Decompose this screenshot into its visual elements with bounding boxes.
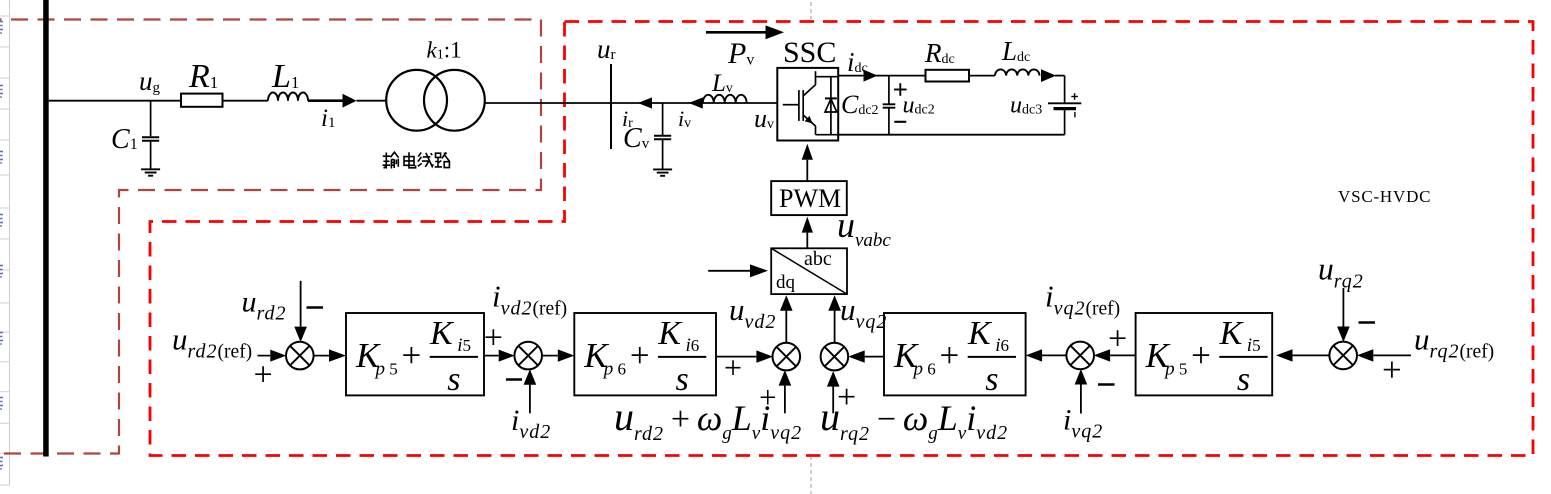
resistor R1 — [181, 94, 223, 107]
svg-text:K: K — [429, 315, 455, 352]
svg-text:i6: i6 — [995, 335, 1009, 356]
polarity - (udc3) — [1074, 112, 1076, 117]
svg-text:SSC: SSC — [783, 36, 836, 69]
node ug — [150, 101, 152, 137]
dashed boundary: VSC-HVDC region — [150, 22, 1533, 456]
dashed boundary: AC grid / transmission region — [0, 20, 541, 454]
arrow PWM to SSC — [806, 160, 808, 181]
inductor Ldc — [995, 69, 1040, 75]
arrow S4 up to dq/abc — [834, 311, 836, 344]
capacitor Cdc2 — [888, 76, 890, 105]
polarity - (udc2) — [894, 121, 906, 123]
svg-text:abc: abc — [804, 248, 832, 270]
inductor Lv — [703, 95, 747, 103]
sign - at S6 — [1359, 321, 1376, 324]
svg-text:k1:1: k1:1 — [427, 38, 462, 63]
sign - at S2 — [506, 378, 522, 381]
arrow urq2ref to S6 — [1373, 354, 1411, 356]
svg-text:+: + — [254, 357, 273, 394]
svg-text:dq: dq — [776, 272, 796, 293]
svg-text:+: + — [940, 336, 960, 375]
label: transmission line (Chinese 输电线路) — [383, 152, 450, 168]
arrow dq/abc to PWM — [806, 233, 808, 249]
arrow ivq2 into S5 — [1080, 385, 1082, 414]
blue text fragments in margin — [0, 22, 3, 34]
diode D1 inside SSC — [816, 77, 839, 135]
power flow arrow Pv — [706, 31, 769, 34]
summing junction S1 — [286, 342, 314, 370]
ground (C1) — [141, 168, 160, 170]
transform block dq/abc — [771, 248, 847, 294]
arrow S1 to block1 — [313, 355, 329, 357]
node bus ur (tick) — [610, 64, 612, 149]
current arrow iv — [689, 97, 703, 108]
wire: SSC dc+ rail — [838, 75, 925, 77]
sign - at S1 — [307, 306, 324, 309]
arrow block2 to S3 — [716, 356, 756, 358]
svg-text:p 6: p 6 — [912, 359, 936, 380]
inductor L1 — [268, 93, 308, 101]
svg-text:s: s — [985, 361, 998, 398]
sign - at S5 — [1098, 383, 1115, 386]
svg-text:+: + — [1382, 351, 1402, 390]
svg-text:VSC-HVDC: VSC-HVDC — [1338, 187, 1431, 206]
spreadsheet column border — [9, 0, 11, 485]
dc source udc3 — [1064, 76, 1066, 104]
svg-text:s: s — [1237, 361, 1250, 398]
spreadsheet row borders — [0, 15, 10, 17]
PI block Kp6+Ki6/s (d-axis inner) — [574, 313, 716, 395]
PI block Kp5+Ki5/s (d-axis outer) — [346, 313, 484, 395]
svg-text:p 5: p 5 — [1163, 359, 1187, 380]
svg-text:i6: i6 — [686, 335, 700, 356]
svg-text:+: + — [484, 320, 503, 357]
arrow S2 to block2 — [543, 355, 558, 357]
arrow into udc3 — [1041, 69, 1056, 82]
summing junction S4 — [821, 343, 849, 371]
arrow block4 to S5 — [1110, 354, 1136, 356]
wire: dc- rail — [838, 134, 1064, 136]
wire: R1 to L1 — [223, 100, 269, 102]
IGBT Q1 inside SSC — [783, 71, 816, 135]
arrow urd2 into S1 — [300, 281, 302, 327]
summing junction S3 — [773, 343, 801, 371]
arrow urd2ref to S1 — [258, 355, 271, 357]
current arrow ir — [638, 97, 652, 108]
block PWM — [771, 181, 847, 215]
svg-text:+: + — [1191, 336, 1211, 375]
summing junction S2 — [514, 342, 542, 370]
svg-text:p 6: p 6 — [602, 359, 626, 380]
svg-text:+: + — [630, 336, 650, 375]
ground (Cv) — [653, 168, 672, 170]
svg-text:s: s — [676, 361, 689, 398]
wire: i1 to transformer — [357, 100, 387, 102]
summing junction S6 — [1329, 342, 1357, 370]
svg-text:+: + — [402, 336, 422, 375]
svg-text:i5: i5 — [1247, 335, 1261, 356]
bus bar (grid) — [43, 0, 49, 457]
svg-text:p 5: p 5 — [374, 359, 398, 380]
svg-text:K: K — [657, 315, 683, 352]
current arrow idc — [864, 70, 878, 82]
transformer T1 k1:1 — [386, 70, 447, 131]
arrow block1 to S2 — [484, 355, 499, 357]
summing junction S5 — [1066, 342, 1094, 370]
arrow block3 to S4 — [865, 356, 884, 358]
current arrow i1 — [308, 99, 344, 102]
svg-text:s: s — [447, 361, 460, 398]
arrow feedforward into S4 — [832, 387, 834, 414]
arrow theta input into dq/abc — [708, 270, 750, 272]
svg-text:+: + — [1108, 321, 1127, 358]
PI block Kp5+Ki5/s (q-axis outer) — [1136, 313, 1273, 395]
wire: transformer to SSC input — [485, 102, 778, 104]
arrow S5 to block3 — [1042, 354, 1067, 356]
capacitor Cv branch — [662, 103, 664, 136]
polarity + (udc3) — [1074, 93, 1076, 100]
polarity + (udc2) — [899, 83, 901, 96]
wire: bus to R1 — [49, 100, 181, 102]
arrow feedforward into S3 — [784, 386, 786, 414]
converter block SSC — [777, 68, 838, 141]
resistor Rdc — [926, 70, 970, 82]
svg-text:i5: i5 — [457, 335, 471, 356]
svg-text:PWM: PWM — [779, 184, 841, 213]
svg-text:+: + — [724, 350, 742, 386]
arrow S6 to block4 — [1293, 354, 1330, 356]
svg-text:K: K — [967, 315, 993, 352]
arrow urq2 into S6 — [1342, 288, 1344, 327]
arrow S3 up to dq/abc — [785, 311, 787, 344]
wire: Rdc to Ldc — [969, 75, 995, 77]
svg-text:K: K — [1219, 315, 1245, 352]
capacitor C1 — [142, 136, 159, 138]
PI block Kp6+Ki6/s (q-axis inner) — [884, 313, 1026, 395]
page-break gridline — [810, 2, 812, 20]
arrow ivd2 into S2 — [529, 385, 531, 414]
